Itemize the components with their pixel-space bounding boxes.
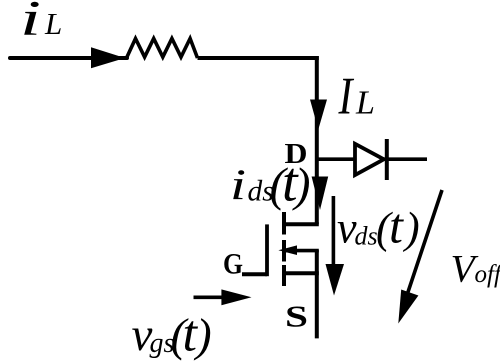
svg-text:L: L — [355, 85, 375, 122]
svg-text:S: S — [285, 299, 308, 334]
svg-text:G: G — [223, 248, 243, 281]
svg-text:off: off — [475, 261, 500, 288]
svg-text:): ) — [193, 310, 212, 361]
svg-text:i: i — [230, 162, 246, 209]
svg-text:L: L — [44, 6, 62, 41]
svg-text:ds: ds — [355, 222, 378, 251]
svg-text:t: t — [389, 198, 404, 254]
svg-text:I: I — [338, 68, 355, 126]
svg-text:): ) — [402, 204, 420, 253]
svg-text:i: i — [20, 0, 41, 46]
svg-text:): ) — [292, 159, 311, 212]
